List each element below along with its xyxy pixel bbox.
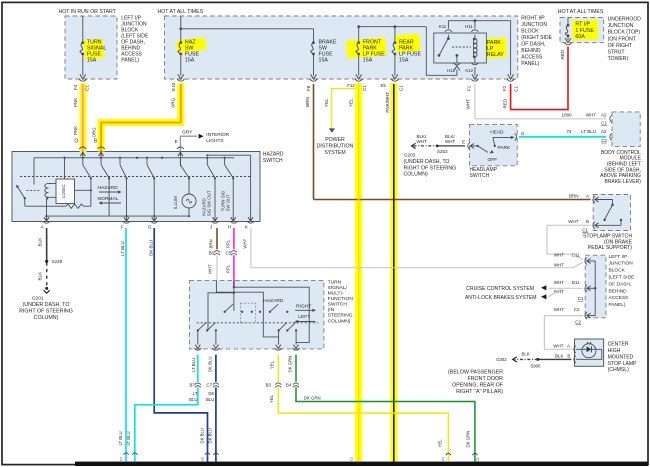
svg-text:COLUMN): COLUMN) bbox=[34, 315, 59, 321]
svg-text:JUNCTION: JUNCTION bbox=[521, 22, 547, 28]
svg-text:YEL: YEL bbox=[324, 98, 329, 107]
svg-text:WHT: WHT bbox=[445, 139, 455, 144]
svg-text:F2: F2 bbox=[502, 85, 507, 91]
svg-text:WHT: WHT bbox=[554, 307, 564, 312]
svg-text:MULTI-: MULTI- bbox=[328, 291, 344, 297]
svg-text:PPL: PPL bbox=[225, 264, 230, 273]
svg-text:RIGHT OF STEERING: RIGHT OF STEERING bbox=[19, 309, 73, 315]
svg-text:LIGHTS: LIGHTS bbox=[206, 138, 223, 144]
svg-text:BRN: BRN bbox=[305, 97, 310, 107]
svg-text:LT: LT bbox=[193, 391, 198, 396]
svg-text:ILLUM: ILLUM bbox=[173, 196, 178, 209]
svg-text:RIGHT OF STEERING: RIGHT OF STEERING bbox=[404, 165, 457, 171]
svg-text:C1: C1 bbox=[398, 85, 403, 91]
svg-text:WHT: WHT bbox=[554, 262, 564, 267]
svg-text:B3: B3 bbox=[266, 383, 272, 388]
svg-text:G203: G203 bbox=[404, 153, 416, 158]
svg-text:F1: F1 bbox=[467, 85, 472, 91]
svg-text:HEAD: HEAD bbox=[490, 130, 504, 136]
svg-text:ACCESS: ACCESS bbox=[521, 55, 543, 61]
svg-text:C1: C1 bbox=[582, 227, 588, 232]
svg-text:OF DASH,: OF DASH, bbox=[609, 281, 632, 287]
svg-text:DISTRIBUTION: DISTRIBUTION bbox=[317, 143, 354, 149]
svg-text:DK: DK bbox=[208, 391, 214, 396]
svg-text:WHT: WHT bbox=[568, 219, 578, 224]
svg-text:(ON FRONT: (ON FRONT bbox=[608, 36, 636, 42]
svg-text:HAZARD: HAZARD bbox=[98, 185, 119, 191]
svg-text:S229: S229 bbox=[52, 259, 63, 264]
svg-text:RED: RED bbox=[560, 49, 565, 59]
svg-text:CRUISE CONTROL SYSTEM: CRUISE CONTROL SYSTEM bbox=[466, 286, 534, 292]
svg-text:F4: F4 bbox=[73, 84, 78, 90]
svg-text:15A: 15A bbox=[363, 58, 373, 64]
svg-text:B: B bbox=[586, 219, 589, 224]
svg-text:DK BLU: DK BLU bbox=[199, 428, 204, 444]
svg-text:HOT AT ALL TIMES: HOT AT ALL TIMES bbox=[558, 9, 604, 15]
svg-text:(RIGHT SIDE: (RIGHT SIDE bbox=[521, 35, 552, 41]
svg-text:B11: B11 bbox=[572, 280, 580, 285]
svg-text:WHT: WHT bbox=[242, 238, 247, 248]
svg-text:OFF: OFF bbox=[488, 157, 498, 163]
svg-text:(BELOW PASSENGER: (BELOW PASSENGER bbox=[448, 370, 503, 376]
svg-text:JUNCTION: JUNCTION bbox=[609, 261, 634, 267]
svg-text:WHT: WHT bbox=[554, 252, 564, 257]
svg-text:YEL: YEL bbox=[270, 360, 275, 369]
svg-text:LEFT I/P: LEFT I/P bbox=[609, 254, 628, 260]
svg-text:SYSTEM: SYSTEM bbox=[324, 150, 345, 156]
svg-text:LT BLU: LT BLU bbox=[120, 241, 125, 255]
svg-text:C1: C1 bbox=[85, 85, 90, 91]
svg-text:BRAKE LEVER): BRAKE LEVER) bbox=[604, 179, 641, 185]
svg-text:SWITCH: SWITCH bbox=[470, 173, 490, 179]
svg-text:JUNCTION: JUNCTION bbox=[608, 23, 634, 29]
svg-text:(LEFT SIDE: (LEFT SIDE bbox=[609, 275, 635, 281]
svg-text:S900: S900 bbox=[530, 363, 541, 368]
svg-text:BLK: BLK bbox=[38, 271, 43, 281]
svg-text:RIGHT ''A'' PILLAR): RIGHT ''A'' PILLAR) bbox=[456, 389, 503, 395]
svg-text:H11: H11 bbox=[465, 24, 473, 29]
svg-text:C7: C7 bbox=[206, 383, 212, 388]
svg-text:O: O bbox=[74, 139, 78, 145]
svg-text:RED: RED bbox=[502, 98, 507, 108]
svg-text:YEL: YEL bbox=[438, 439, 443, 448]
svg-text:(UNDER DASH, TO: (UNDER DASH, TO bbox=[404, 159, 450, 165]
svg-text:PNK/WHT: PNK/WHT bbox=[385, 92, 390, 113]
svg-text:ANTI-LOCK BRAKES SYSTEM: ANTI-LOCK BRAKES SYSTEM bbox=[465, 295, 537, 301]
svg-text:TURN: TURN bbox=[328, 279, 342, 285]
svg-text:HIGH: HIGH bbox=[608, 348, 621, 354]
svg-text:F8: F8 bbox=[306, 85, 311, 91]
svg-text:STRUT: STRUT bbox=[608, 50, 625, 56]
svg-text:15A: 15A bbox=[319, 58, 329, 64]
svg-text:UNDERHOOD: UNDERHOOD bbox=[608, 17, 642, 23]
svg-text:(UNDER DASH, TO: (UNDER DASH, TO bbox=[23, 302, 70, 308]
svg-text:K11: K11 bbox=[439, 24, 447, 29]
svg-text:C3: C3 bbox=[441, 457, 445, 461]
svg-text:G201: G201 bbox=[32, 296, 44, 302]
svg-text:BEHIND: BEHIND bbox=[609, 288, 628, 294]
svg-text:FUNCTION: FUNCTION bbox=[328, 296, 354, 302]
svg-text:C1: C1 bbox=[601, 121, 607, 126]
svg-text:PNK: PNK bbox=[73, 126, 78, 135]
svg-text:YEL: YEL bbox=[269, 394, 274, 403]
svg-text:WHT: WHT bbox=[586, 112, 596, 117]
svg-text:HOT IN RUN OR START: HOT IN RUN OR START bbox=[59, 9, 117, 15]
svg-text:C2: C2 bbox=[575, 319, 581, 324]
svg-text:LEFT: LEFT bbox=[298, 314, 310, 320]
svg-text:WHT: WHT bbox=[466, 99, 471, 110]
svg-text:F12: F12 bbox=[347, 83, 355, 88]
svg-text:LOGIC: LOGIC bbox=[61, 184, 66, 198]
svg-text:SW OUT: SW OUT bbox=[226, 194, 231, 212]
svg-text:STOP LAMP: STOP LAMP bbox=[608, 361, 638, 367]
svg-text:POWER: POWER bbox=[325, 137, 345, 143]
svg-text:GRY: GRY bbox=[182, 129, 193, 135]
svg-text:B7: B7 bbox=[190, 383, 196, 388]
svg-text:WHT: WHT bbox=[554, 280, 564, 285]
svg-text:DK GRN: DK GRN bbox=[288, 356, 293, 373]
svg-text:DK BLU: DK BLU bbox=[208, 428, 213, 444]
svg-text:C1: C1 bbox=[514, 86, 519, 92]
svg-text:K12: K12 bbox=[465, 68, 473, 73]
svg-text:G: G bbox=[148, 224, 152, 229]
svg-text:WHT: WHT bbox=[207, 264, 212, 274]
svg-text:COLUMN): COLUMN) bbox=[404, 172, 428, 178]
svg-text:(CHMSL): (CHMSL) bbox=[608, 367, 630, 373]
svg-text:ORG: ORG bbox=[171, 97, 176, 108]
svg-text:BLK: BLK bbox=[521, 351, 529, 356]
svg-text:BRN: BRN bbox=[569, 194, 579, 199]
svg-text:B: B bbox=[567, 353, 570, 358]
svg-text:60A: 60A bbox=[575, 34, 585, 40]
svg-text:FRONT DOOR: FRONT DOOR bbox=[467, 376, 503, 382]
svg-text:C1: C1 bbox=[119, 457, 123, 461]
svg-text:HAZARD: HAZARD bbox=[263, 151, 284, 157]
svg-text:DK BLU: DK BLU bbox=[208, 356, 213, 372]
svg-text:15A: 15A bbox=[87, 58, 97, 64]
svg-text:PANEL): PANEL) bbox=[521, 61, 539, 67]
svg-text:G302: G302 bbox=[496, 357, 507, 362]
svg-text:PANEL): PANEL) bbox=[121, 57, 139, 63]
svg-text:BLK: BLK bbox=[555, 353, 564, 358]
svg-text:E5: E5 bbox=[381, 83, 387, 88]
svg-text:BLOCK: BLOCK bbox=[521, 29, 539, 35]
svg-text:C1: C1 bbox=[362, 85, 367, 91]
svg-text:H12: H12 bbox=[447, 68, 455, 73]
svg-text:F: F bbox=[121, 224, 124, 229]
svg-text:PANEL): PANEL) bbox=[609, 302, 626, 308]
svg-text:PARK: PARK bbox=[498, 145, 512, 151]
svg-text:RT I/P: RT I/P bbox=[575, 22, 590, 28]
svg-text:PEDAL SUPPORT): PEDAL SUPPORT) bbox=[588, 245, 632, 251]
svg-text:WHT: WHT bbox=[553, 344, 563, 349]
svg-text:C2: C2 bbox=[574, 307, 580, 312]
svg-text:C2: C2 bbox=[350, 457, 354, 461]
svg-text:STEERING: STEERING bbox=[328, 313, 353, 319]
svg-text:E: E bbox=[462, 140, 465, 145]
svg-text:LT BLU: LT BLU bbox=[581, 129, 596, 134]
svg-text:SWITCH: SWITCH bbox=[328, 302, 348, 308]
svg-text:DK BLU: DK BLU bbox=[148, 240, 153, 256]
svg-text:B4: B4 bbox=[286, 383, 292, 388]
svg-text:YEL: YEL bbox=[348, 98, 353, 107]
svg-text:HOT AT ALL TIMES: HOT AT ALL TIMES bbox=[158, 9, 204, 15]
svg-text:PNK: PNK bbox=[73, 98, 78, 107]
svg-text:BEHIND: BEHIND bbox=[521, 48, 541, 54]
svg-text:ORG: ORG bbox=[91, 127, 96, 138]
svg-text:TOWER): TOWER) bbox=[608, 56, 629, 62]
svg-text:C5: C5 bbox=[226, 251, 232, 256]
svg-text:C3: C3 bbox=[601, 138, 607, 143]
svg-text:ACCESS: ACCESS bbox=[609, 295, 629, 301]
svg-text:74: 74 bbox=[566, 129, 572, 134]
svg-text:A: A bbox=[586, 194, 589, 199]
svg-text:LT BLU: LT BLU bbox=[191, 358, 196, 372]
svg-text:1 FUSE: 1 FUSE bbox=[575, 28, 594, 34]
svg-text:DK GRN: DK GRN bbox=[304, 395, 321, 400]
svg-text:C1: C1 bbox=[578, 296, 584, 301]
svg-text:LT BLU: LT BLU bbox=[118, 431, 123, 445]
svg-text:BLU: BLU bbox=[206, 397, 214, 402]
svg-text:BRN: BRN bbox=[208, 239, 213, 248]
svg-text:C1: C1 bbox=[476, 458, 480, 462]
svg-text:C0: C0 bbox=[200, 457, 204, 461]
svg-text:DK GRN: DK GRN bbox=[466, 431, 471, 448]
svg-text:NORMAL: NORMAL bbox=[98, 196, 119, 202]
svg-text:(IN: (IN bbox=[328, 307, 335, 313]
svg-text:CENTER: CENTER bbox=[608, 342, 629, 348]
svg-text:SIG SW OUT: SIG SW OUT bbox=[207, 190, 212, 216]
svg-text:BLOCK: BLOCK bbox=[609, 268, 626, 274]
svg-text:BLK: BLK bbox=[38, 237, 43, 247]
svg-text:A2: A2 bbox=[601, 112, 607, 117]
svg-text:BLU: BLU bbox=[189, 397, 197, 402]
svg-text:A2: A2 bbox=[601, 129, 607, 134]
svg-text:A: A bbox=[567, 344, 570, 349]
svg-text:INTERIOR: INTERIOR bbox=[206, 132, 229, 138]
svg-text:SIGNAL/: SIGNAL/ bbox=[328, 285, 348, 291]
svg-text:HAZARD: HAZARD bbox=[263, 298, 284, 304]
svg-text:E10: E10 bbox=[171, 82, 176, 91]
svg-text:RELAY: RELAY bbox=[487, 52, 504, 58]
svg-text:C11: C11 bbox=[572, 252, 580, 257]
svg-text:OPENING, REAR OF: OPENING, REAR OF bbox=[452, 382, 504, 388]
svg-text:RIGHT: RIGHT bbox=[296, 303, 311, 309]
svg-text:RIGHT I/P: RIGHT I/P bbox=[521, 16, 545, 22]
svg-text:WHT: WHT bbox=[417, 139, 427, 144]
svg-text:COLUMN): COLUMN) bbox=[328, 318, 351, 324]
svg-text:15A: 15A bbox=[399, 58, 409, 64]
svg-text:J: J bbox=[210, 224, 212, 229]
svg-text:OF DASH,: OF DASH, bbox=[521, 42, 545, 48]
svg-text:BLOCK (TOP): BLOCK (TOP) bbox=[608, 30, 641, 36]
svg-text:B6: B6 bbox=[209, 251, 215, 256]
svg-text:H: H bbox=[228, 224, 231, 229]
svg-text:PPL: PPL bbox=[225, 239, 230, 248]
svg-text:SWITCH: SWITCH bbox=[263, 158, 283, 164]
svg-text:OF RIGHT: OF RIGHT bbox=[608, 43, 632, 49]
svg-text:G: G bbox=[521, 131, 525, 136]
svg-text:1080: 1080 bbox=[561, 112, 572, 117]
svg-text:15A: 15A bbox=[185, 58, 195, 64]
svg-text:E: E bbox=[175, 139, 178, 144]
svg-text:S253: S253 bbox=[437, 149, 448, 154]
svg-text:LT BLU: LT BLU bbox=[126, 431, 131, 445]
svg-text:MOUNTED: MOUNTED bbox=[608, 354, 634, 360]
